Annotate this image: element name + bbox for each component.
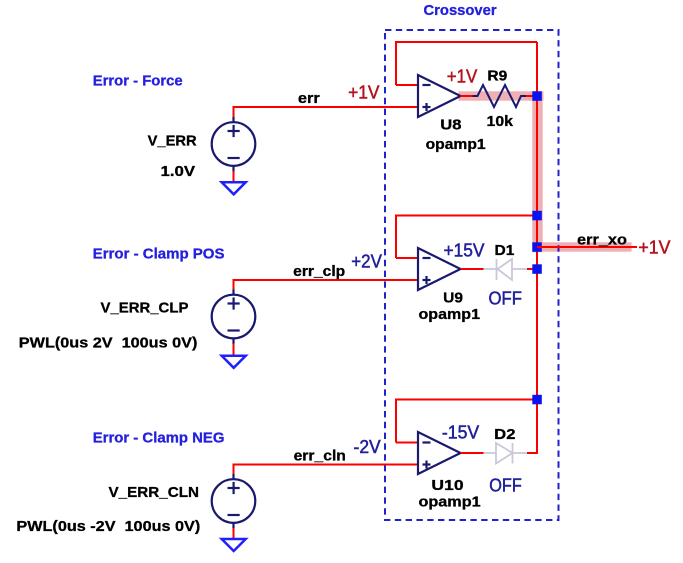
svg-text:+1V: +1V — [638, 238, 670, 258]
svg-text:U8: U8 — [440, 117, 461, 134]
svg-text:err_xo: err_xo — [577, 231, 627, 248]
ground V_ERR_CLP — [222, 356, 246, 368]
net highlight U8 output horizontal band — [459, 91, 544, 100]
svg-text:opamp1: opamp1 — [419, 493, 481, 510]
svg-text:D2: D2 — [494, 426, 515, 443]
wire V_ERR to ground — [233, 171, 235, 182]
voltage source V_ERR_CLP — [212, 290, 256, 345]
op-amp U8 — [418, 75, 461, 117]
svg-text:Error - Force: Error - Force — [93, 73, 183, 90]
diode D1 (off, pointing left) — [484, 259, 528, 280]
svg-text:opamp1: opamp1 — [419, 306, 481, 323]
svg-text:U10: U10 — [431, 477, 463, 494]
wire V_ERR_CLN to ground — [233, 528, 235, 539]
wire V_ERR_CLP to ground — [233, 344, 235, 356]
svg-text:V_ERR: V_ERR — [148, 133, 197, 150]
svg-text:+1V: +1V — [348, 83, 379, 103]
wire err_xo — [537, 246, 637, 248]
junction err_xo tap — [532, 242, 542, 252]
wire U10 inverting input stub — [396, 442, 418, 444]
wire U8 output stub — [461, 95, 474, 97]
junction at R9 output — [532, 91, 542, 101]
wire U8 feedback loop — [396, 42, 537, 85]
svg-text:+2V: +2V — [351, 251, 382, 271]
net highlight err_xo band — [532, 242, 631, 251]
svg-text:V_ERR_CLN: V_ERR_CLN — [109, 484, 200, 501]
svg-text:Error - Clamp NEG: Error - Clamp NEG — [93, 430, 225, 447]
ground V_ERR_CLN — [222, 539, 246, 551]
svg-text:D1: D1 — [495, 242, 515, 259]
voltage source V_ERR — [212, 117, 256, 172]
wire R9 to junction — [526, 95, 534, 97]
wire U10 feedback loop — [396, 400, 537, 443]
op-amp U9 — [418, 248, 461, 290]
net highlight vertical bus band — [532, 91, 542, 252]
svg-text:err_cln: err_cln — [294, 448, 346, 465]
svg-text:OFF: OFF — [489, 476, 522, 496]
wire U9 inverting input stub — [396, 257, 418, 259]
svg-text:err_clp: err_clp — [293, 263, 345, 280]
svg-text:err: err — [298, 90, 320, 107]
junction at U10 feedback — [532, 395, 542, 405]
wire D2 to vertical net — [527, 452, 538, 454]
wire U10 output stub — [461, 452, 484, 454]
voltage source V_ERR_CLN — [212, 474, 256, 529]
wire err_clp: V_ERR_CLP to U9 + input — [234, 280, 419, 290]
svg-text:+15V: +15V — [444, 240, 485, 260]
wire U9 output stub — [461, 268, 484, 270]
wire D1 to junction — [527, 268, 534, 270]
junction at U9 feedback — [532, 211, 542, 221]
resistor R9 — [473, 85, 527, 107]
wire err: V_ERR to U8 + input — [234, 107, 419, 118]
diode D2 (off, pointing right) — [484, 443, 528, 464]
svg-text:10k: 10k — [487, 113, 514, 130]
svg-text:V_ERR_CLP: V_ERR_CLP — [101, 300, 189, 317]
ground V_ERR — [222, 182, 246, 194]
svg-text:-15V: -15V — [442, 422, 479, 442]
svg-text:Crossover: Crossover — [424, 2, 497, 19]
svg-text:Error - Clamp POS: Error - Clamp POS — [93, 246, 225, 263]
crossover bounding box — [385, 30, 559, 520]
svg-text:-2V: -2V — [354, 437, 381, 457]
svg-text:U9: U9 — [443, 290, 463, 307]
junction D1 cathode — [532, 264, 542, 274]
op-amp U10 — [418, 432, 461, 474]
svg-text:PWL(0us -2V 100us 0V): PWL(0us -2V 100us 0V) — [16, 518, 200, 535]
wire err_cln: V_ERR_CLN to U10 + input — [234, 465, 419, 475]
wire U8 inverting input stub — [396, 84, 418, 86]
svg-text:OFF: OFF — [489, 289, 522, 309]
svg-text:PWL(0us 2V 100us 0V): PWL(0us 2V 100us 0V) — [19, 334, 198, 351]
svg-text:R9: R9 — [487, 68, 507, 85]
wire U9 feedback loop — [396, 216, 537, 259]
main vertical net wire — [536, 42, 538, 453]
svg-text:1.0V: 1.0V — [161, 163, 196, 180]
svg-text:opamp1: opamp1 — [426, 136, 486, 153]
svg-text:+1V: +1V — [447, 67, 478, 87]
